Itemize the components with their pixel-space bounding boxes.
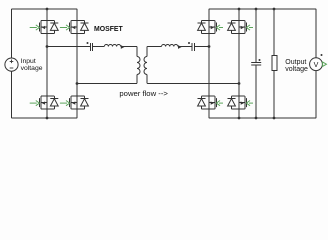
body diode D2 of Q2 bbox=[81, 21, 89, 34]
body diode D4 of Q4 bbox=[81, 96, 89, 109]
wire: input-side bottom rail bbox=[11, 117, 77, 119]
wire: output capacitor leads bbox=[255, 9, 257, 118]
label power flow annotation bbox=[119, 89, 168, 98]
node: top rail junction at left leg 1 bbox=[46, 8, 49, 11]
transformer T1 secondary winding bbox=[144, 57, 147, 75]
gate signal port of Q2 bbox=[60, 25, 70, 30]
label Input voltage bbox=[21, 58, 43, 72]
svg-text:power flow -->: power flow --> bbox=[119, 89, 168, 98]
wire: L2 to C2 bbox=[178, 46, 192, 48]
wire: left leg 2 verticals bbox=[76, 9, 78, 118]
voltmeter VM1 bbox=[310, 58, 323, 71]
transistor Q6 (MOSFET) bbox=[232, 21, 247, 34]
wire: transformer secondary top lead bbox=[147, 47, 162, 57]
svg-text:Output: Output bbox=[285, 59, 306, 66]
node: bottom rail junction at left leg 1 bbox=[46, 117, 49, 120]
transistor Q5 (MOSFET) bbox=[202, 21, 217, 34]
polarity mark of C2 bbox=[188, 42, 190, 44]
inductor L2 (secondary series) bbox=[162, 44, 178, 46]
node: bottom rail junction at right leg 2 bbox=[238, 117, 241, 120]
node: secondary link tap on right leg 1 bbox=[208, 45, 211, 48]
voltage source Vin (input DC source) bbox=[5, 58, 18, 71]
transistor Q7 (MOSFET) bbox=[202, 96, 217, 109]
node: top rail junction at load resistor R1 bbox=[273, 8, 276, 11]
svg-text:MOSFET: MOSFET bbox=[94, 26, 124, 33]
wire: left leg 1 verticals bbox=[46, 9, 48, 118]
wire: secondary return to right leg 2 bbox=[147, 75, 239, 84]
gate signal port of Q6 bbox=[246, 25, 253, 30]
resistor R1 (load) bbox=[272, 56, 277, 71]
wire: leg1 tap to C1 bbox=[47, 46, 90, 48]
body diode D7 of Q7 bbox=[198, 96, 206, 109]
wire: output-side top rail bbox=[209, 8, 316, 10]
gate signal port of Q1 bbox=[30, 25, 40, 30]
svg-text:voltage: voltage bbox=[21, 65, 43, 72]
body diode D6 of Q6 bbox=[228, 21, 236, 34]
wire: voltmeter leads bbox=[315, 9, 317, 118]
transistor Q8 (MOSFET) bbox=[232, 96, 247, 109]
node: bottom rail junction at output capacitor C3 bbox=[255, 117, 258, 120]
gate signal port of Q3 bbox=[30, 101, 40, 106]
body diode D3 of Q3 bbox=[50, 96, 58, 109]
wire: L1 to transformer primary bbox=[121, 47, 137, 57]
node: primary link tap on left leg 1 bbox=[46, 45, 49, 48]
capacitor C3 (output filter) bbox=[251, 63, 261, 66]
node: bottom rail junction at load resistor R1 bbox=[273, 117, 276, 120]
svg-text:V: V bbox=[314, 61, 319, 69]
wire: output-side bottom rail bbox=[209, 117, 316, 119]
signal output port of voltmeter VM1 bbox=[323, 62, 327, 66]
label Output voltage bbox=[285, 59, 308, 73]
wire: C1 to L1 bbox=[93, 46, 105, 48]
power-flow arrow on secondary link bbox=[178, 45, 182, 49]
gate signal port of Q4 bbox=[60, 101, 70, 106]
body diode D8 of Q8 bbox=[228, 96, 236, 109]
wire: C2 to right leg 1 tap bbox=[194, 46, 208, 48]
body diode D5 of Q5 bbox=[198, 21, 206, 34]
power-flow arrow on primary link bbox=[121, 45, 125, 49]
wire: input source leads bbox=[11, 9, 13, 118]
capacitor C2 (secondary dc-block) bbox=[192, 43, 195, 51]
inductor L1 (primary series) bbox=[104, 44, 120, 46]
body diode D1 of Q1 bbox=[50, 21, 58, 34]
wire: primary return to left leg 2 bbox=[77, 75, 137, 84]
wire: load resistor leads bbox=[273, 9, 275, 118]
gate signal port of Q8 bbox=[246, 101, 253, 106]
wire: input-side top rail bbox=[11, 8, 77, 10]
transistor Q2 (MOSFET) bbox=[70, 21, 85, 34]
svg-text:Input: Input bbox=[21, 58, 36, 65]
svg-text:voltage: voltage bbox=[285, 66, 308, 73]
transistor Q4 (MOSFET) bbox=[70, 96, 85, 109]
polarity mark of C3 bbox=[259, 59, 261, 61]
node: top rail junction at output capacitor C3 bbox=[255, 8, 258, 11]
capacitor C1 (primary dc-block) bbox=[91, 43, 93, 51]
node: top rail junction at right leg 2 bbox=[238, 8, 241, 11]
node: primary return tap on left leg 2 bbox=[76, 82, 79, 85]
gate signal port of Q7 bbox=[216, 101, 223, 106]
node: secondary return tap on right leg 2 bbox=[238, 82, 241, 85]
wire: right leg 1 verticals bbox=[208, 9, 210, 118]
transistor Q3 (MOSFET) bbox=[40, 96, 55, 109]
polarity mark of voltmeter VM1 bbox=[321, 54, 323, 56]
label MOSFET bbox=[94, 26, 124, 33]
transistor Q1 (MOSFET) bbox=[40, 21, 55, 34]
gate signal port of Q5 bbox=[216, 25, 223, 30]
wire: right leg 2 verticals bbox=[238, 9, 240, 118]
transformer T1 primary winding bbox=[137, 57, 140, 75]
polarity mark of C1 bbox=[87, 42, 89, 44]
